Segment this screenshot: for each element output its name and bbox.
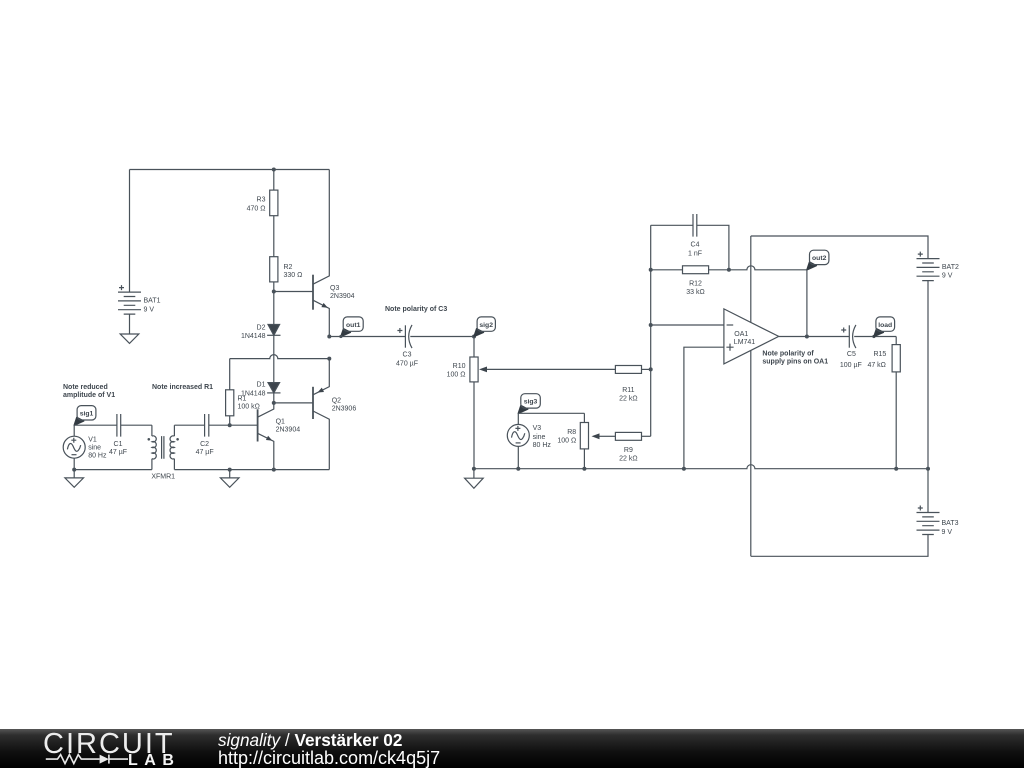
svg-text:22 kΩ: 22 kΩ xyxy=(619,396,637,403)
battery BAT3 xyxy=(917,469,940,535)
battery BAT1 xyxy=(118,285,141,314)
resistor R12 33k with hop to out2 xyxy=(651,266,807,274)
resistor R8 100 xyxy=(580,413,588,468)
node: inverting input junction xyxy=(649,323,653,327)
wire: BAT2 bottom lead xyxy=(927,281,929,469)
node: R8 bottom junction xyxy=(582,467,586,471)
svg-text:47 kΩ: 47 kΩ xyxy=(867,362,885,369)
wire: bottom rail of discrete stage xyxy=(174,469,329,471)
resistor R11 22k xyxy=(615,366,650,374)
node: ground junction xyxy=(228,468,232,472)
node: sig2 junction xyxy=(472,335,476,339)
node: R10 ground junction xyxy=(472,467,476,471)
wire: Q2 base xyxy=(274,402,313,404)
resistor R15 47k xyxy=(892,337,900,469)
resistor R3 xyxy=(270,170,278,257)
source V3 sine xyxy=(507,413,529,468)
node: D1 / Q1 collector / Q2 base xyxy=(272,401,276,405)
svg-text:C1: C1 xyxy=(114,441,123,448)
node: output junction xyxy=(805,335,809,339)
wire: transformer to C2 xyxy=(174,424,204,426)
svg-text:R10: R10 xyxy=(453,363,466,370)
svg-text:100 kΩ: 100 kΩ xyxy=(238,404,260,411)
wire: V- supply pin down xyxy=(750,350,752,556)
wire: BAT2 top xyxy=(751,236,928,259)
ground below BAT1 xyxy=(120,334,139,343)
wire: inverting input xyxy=(651,324,724,326)
svg-text:V3: V3 xyxy=(533,425,542,432)
svg-text:100 µF: 100 µF xyxy=(840,362,862,369)
svg-text:2N3904: 2N3904 xyxy=(276,427,301,434)
transistor Q1 2N3904 xyxy=(258,403,274,470)
svg-text:33 kΩ: 33 kΩ xyxy=(686,289,704,296)
node: V3 bottom junction xyxy=(516,467,520,471)
svg-text:sig2: sig2 xyxy=(479,322,493,329)
node: emitter node junction xyxy=(327,357,331,361)
footer title xyxy=(218,730,402,751)
resistor R2 xyxy=(270,257,278,292)
wire: BAT1 to ground xyxy=(129,314,131,334)
CIRCUIT LAB logo xyxy=(42,730,187,766)
svg-text:Q1: Q1 xyxy=(276,419,285,426)
ground below V1 xyxy=(65,470,84,488)
transformer XFMR1 xyxy=(148,425,179,469)
node: Q1 emitter junction xyxy=(272,468,276,472)
svg-text:R3: R3 xyxy=(257,196,266,203)
svg-text:load: load xyxy=(878,322,892,329)
wire: out1 to C3 xyxy=(329,336,405,338)
flag sig3 xyxy=(518,394,540,414)
svg-text:C2: C2 xyxy=(200,441,209,448)
node: out1 junction xyxy=(327,335,331,339)
wire: sig1 to C1 xyxy=(74,424,117,426)
svg-text:C3: C3 xyxy=(403,352,412,359)
source V1 sine xyxy=(63,425,85,469)
svg-text:R15: R15 xyxy=(873,351,886,358)
wire: V+ supply pin to BAT2 xyxy=(750,236,752,322)
capacitor C1 47uF xyxy=(117,414,152,437)
svg-text:OA1: OA1 xyxy=(734,331,748,338)
svg-text:LM741: LM741 xyxy=(734,339,756,346)
svg-text:470 µF: 470 µF xyxy=(396,360,418,367)
svg-text:R1: R1 xyxy=(238,396,247,403)
logo resistor-diode squiggle xyxy=(46,755,128,764)
wire: BAT1 top vertical xyxy=(129,170,131,293)
potentiometer R10 100 xyxy=(470,337,616,469)
flag out1 xyxy=(341,317,363,337)
node: C4 right junction xyxy=(727,268,731,272)
svg-text:V1: V1 xyxy=(88,436,97,443)
capacitor C5 100uF polarized xyxy=(841,325,896,348)
capacitor C4 1nF xyxy=(651,214,729,270)
svg-text:2N3906: 2N3906 xyxy=(332,406,357,413)
svg-text:BAT1: BAT1 xyxy=(144,298,161,305)
wire: BAT3 bottom to V- xyxy=(751,535,928,557)
flag sig2 xyxy=(474,317,495,337)
node: R15 rail junction xyxy=(894,467,898,471)
node: battery rail junction xyxy=(926,467,930,471)
svg-text:supply pins on OA1: supply pins on OA1 xyxy=(762,359,828,366)
svg-text:80 Hz: 80 Hz xyxy=(88,453,107,460)
svg-text:Note polarity of: Note polarity of xyxy=(762,350,814,357)
svg-text:R9: R9 xyxy=(624,447,633,454)
resistor R9 22k with wiper arrow into R8 xyxy=(592,432,651,440)
wire: op-amp output xyxy=(779,336,850,338)
battery BAT2 xyxy=(917,252,940,281)
svg-text:BAT2: BAT2 xyxy=(942,264,959,271)
svg-text:out2: out2 xyxy=(812,255,827,262)
svg-text:1 nF: 1 nF xyxy=(688,251,702,258)
svg-text:amplitude of V1: amplitude of V1 xyxy=(63,392,115,399)
svg-text:9 V: 9 V xyxy=(942,272,953,279)
wire: bottom rail V1 to transformer xyxy=(74,469,152,471)
svg-text:47 µF: 47 µF xyxy=(109,449,127,456)
svg-text:sig1: sig1 xyxy=(80,411,94,418)
svg-text:R11: R11 xyxy=(622,387,634,394)
wire: Q3 base xyxy=(274,291,313,293)
svg-text:Note polarity of C3: Note polarity of C3 xyxy=(385,306,447,313)
svg-text:Q2: Q2 xyxy=(332,398,341,405)
wire: C2 to Q1 base xyxy=(209,424,258,426)
svg-text:XFMR1: XFMR1 xyxy=(151,474,175,481)
svg-text:22 kΩ: 22 kΩ xyxy=(619,456,637,463)
svg-text:R8: R8 xyxy=(567,429,576,436)
footer bar xyxy=(0,729,1024,768)
svg-text:47 µF: 47 µF xyxy=(196,449,214,456)
svg-text:1N4148: 1N4148 xyxy=(241,333,266,340)
svg-text:2N3904: 2N3904 xyxy=(330,293,355,300)
node: V1 bottom junction xyxy=(72,468,76,472)
svg-text:C5: C5 xyxy=(847,351,856,358)
transistor Q3 2N3904 xyxy=(313,170,329,337)
node: load anchor xyxy=(872,335,875,338)
flag load xyxy=(874,317,895,337)
svg-text:LAB: LAB xyxy=(128,752,180,766)
svg-text:Note increased R1: Note increased R1 xyxy=(152,384,213,391)
wire: D2 to D1 with hop over feedback wire xyxy=(273,335,275,382)
svg-text:9 V: 9 V xyxy=(144,306,155,313)
svg-text:100 Ω: 100 Ω xyxy=(557,437,576,444)
svg-text:9 V: 9 V xyxy=(942,529,953,536)
capacitor C3 470uF polarized xyxy=(397,325,474,348)
transistor Q2 2N3906 xyxy=(313,359,329,470)
wire: R1 top to Q2 emitter node xyxy=(230,355,330,359)
flag out2 xyxy=(807,250,829,270)
svg-text:R2: R2 xyxy=(284,264,293,271)
svg-text:330 Ω: 330 Ω xyxy=(284,272,303,279)
svg-text:D2: D2 xyxy=(257,324,266,331)
svg-text:D1: D1 xyxy=(257,382,266,389)
ground below R10 xyxy=(465,469,484,489)
svg-text:sine: sine xyxy=(88,444,101,451)
node: out1 anchor xyxy=(339,335,342,338)
capacitor C2 47uF xyxy=(205,414,209,437)
wire: bottom rail right with hop over V- xyxy=(474,465,928,469)
node: C4/R12 left junction xyxy=(649,268,653,272)
svg-text:Q3: Q3 xyxy=(330,285,339,292)
wire: sig3 node to R8 xyxy=(518,412,584,414)
wire: inverting node vertical xyxy=(650,225,652,436)
node: R2 / Q3 base / D2 xyxy=(272,290,276,294)
svg-text:80 Hz: 80 Hz xyxy=(533,442,552,449)
node: R1 bottom / Q1 base wire xyxy=(228,423,232,427)
diode D1 1N4148 xyxy=(267,383,280,403)
flag sig1 xyxy=(74,406,96,426)
node: junction top rail / R3 xyxy=(272,168,276,172)
resistor R1 100k xyxy=(226,359,234,426)
wire: out2 corner down to output xyxy=(806,270,808,337)
svg-text:sine: sine xyxy=(533,434,546,441)
op-amp OA1 LM741 xyxy=(724,309,779,364)
svg-text:Note reduced: Note reduced xyxy=(63,384,108,391)
svg-text:C4: C4 xyxy=(691,242,700,249)
wire: non-inverting input xyxy=(684,347,724,469)
svg-text:sig3: sig3 xyxy=(524,399,538,406)
footer url xyxy=(218,748,440,769)
diode D2 1N4148 xyxy=(267,292,280,336)
svg-text:BAT3: BAT3 xyxy=(942,520,959,527)
svg-text:470 Ω: 470 Ω xyxy=(247,206,266,213)
svg-text:out1: out1 xyxy=(346,322,361,329)
node: R11 junction xyxy=(649,367,653,371)
ground below discrete stage xyxy=(220,470,239,488)
wire: top rail V+ of first stage xyxy=(130,169,330,171)
svg-text:100 Ω: 100 Ω xyxy=(447,371,466,378)
svg-text:R12: R12 xyxy=(689,281,702,288)
node: non-inverting rail junction xyxy=(682,467,686,471)
